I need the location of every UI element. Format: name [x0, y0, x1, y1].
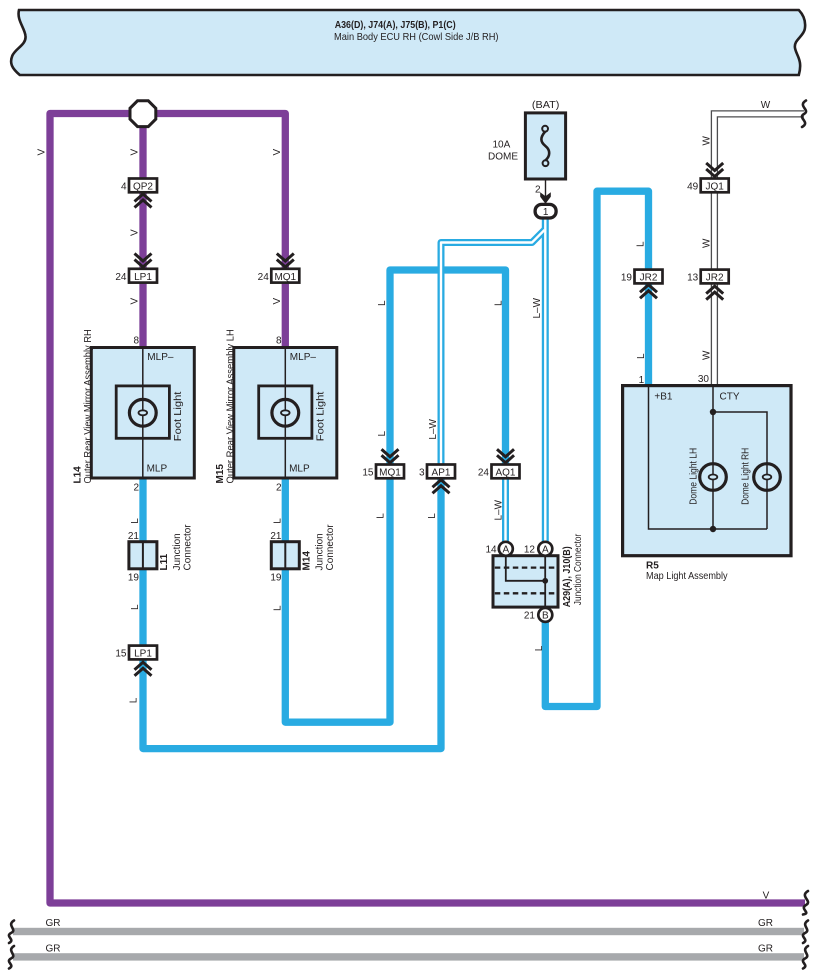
pin A (14) — [499, 542, 513, 556]
connector AQ1 pin 24 — [492, 465, 520, 479]
component L14 Outer Rear View Mirror Assembly RH — [91, 348, 194, 479]
svg-text:Dome Light LH: Dome Light LH — [689, 448, 700, 505]
svg-text:A29(A), J10(B): A29(A), J10(B) — [562, 546, 573, 607]
bulb dome light LH — [700, 464, 727, 491]
svg-text:49: 49 — [687, 182, 699, 193]
tear mark at W wire right end — [802, 101, 806, 128]
connector JR2 pin 13 — [701, 270, 729, 284]
svg-text:Outer Rear View Mirror Assembl: Outer Rear View Mirror Assembly RH — [83, 329, 94, 483]
svg-text:24: 24 — [258, 272, 270, 283]
svg-text:V: V — [272, 298, 283, 305]
svg-text:14: 14 — [485, 545, 497, 556]
svg-text:M14: M14 — [302, 551, 313, 571]
svg-text:V: V — [130, 298, 141, 305]
svg-text:L: L — [130, 518, 141, 524]
R5 junction dots — [710, 409, 716, 415]
svg-text:MQ1: MQ1 — [274, 272, 296, 283]
tear mark at purple bottom right end — [803, 891, 808, 915]
svg-text:LP1: LP1 — [134, 272, 152, 283]
svg-text:L: L — [636, 353, 647, 359]
svg-text:L: L — [377, 300, 388, 306]
svg-text:Main Body ECU RH (Cowl Side J/: Main Body ECU RH (Cowl Side J/B RH) — [334, 31, 499, 43]
svg-text:12: 12 — [524, 545, 536, 556]
svg-text:B: B — [542, 611, 549, 622]
svg-text:W: W — [702, 350, 713, 360]
svg-text:L: L — [376, 513, 387, 519]
tear marks GR bar 1 — [9, 921, 14, 944]
bulb foot light M15 — [272, 399, 299, 426]
svg-text:(BAT): (BAT) — [532, 100, 560, 111]
svg-text:3: 3 — [419, 468, 425, 479]
svg-text:21: 21 — [270, 531, 282, 542]
svg-text:L: L — [493, 300, 504, 306]
svg-text:+B1: +B1 — [654, 392, 673, 403]
svg-text:JR2: JR2 — [706, 273, 724, 284]
svg-text:A: A — [502, 544, 509, 555]
junction connector L11 — [129, 542, 157, 569]
connector MQ1 pin 24 — [271, 269, 299, 283]
svg-text:2: 2 — [276, 483, 282, 494]
svg-text:MQ1: MQ1 — [379, 468, 401, 479]
svg-text:GR: GR — [758, 944, 773, 955]
svg-text:MLP–: MLP– — [147, 352, 174, 363]
arrowhead into node 1 — [540, 192, 551, 204]
svg-text:AQ1: AQ1 — [495, 468, 515, 479]
bulb dome light RH — [754, 464, 781, 491]
svg-text:L–W: L–W — [428, 418, 439, 439]
wire L from L14 pin2 through L11, LP1(15) to AP1 — [143, 477, 441, 749]
R5 internal CTY line — [713, 386, 767, 529]
svg-text:24: 24 — [478, 468, 490, 479]
svg-text:13: 13 — [687, 273, 699, 284]
svg-text:GR: GR — [46, 944, 61, 955]
svg-text:V: V — [130, 149, 141, 156]
svg-text:A: A — [542, 544, 549, 555]
svg-text:W: W — [761, 100, 771, 111]
svg-text:AP1: AP1 — [432, 468, 451, 479]
svg-text:R5: R5 — [646, 561, 659, 572]
svg-text:CTY: CTY — [720, 392, 740, 403]
svg-text:Outer Rear View Mirror Assembl: Outer Rear View Mirror Assembly LH — [225, 329, 236, 483]
wire L-W node1 down to pin A(12) : cyan base — [542, 216, 549, 543]
pin A (12) — [538, 542, 552, 556]
svg-text:24: 24 — [115, 272, 127, 283]
svg-text:Foot Light: Foot Light — [316, 391, 327, 441]
wire V main purple run: top rail, left drop, bottom rail — [50, 114, 805, 904]
component R5 Map Light Assembly — [623, 386, 791, 556]
svg-text:Junction Connector: Junction Connector — [573, 533, 584, 605]
svg-text:L: L — [273, 518, 284, 524]
connector LP1 pin 15 — [129, 646, 157, 660]
svg-text:L: L — [636, 241, 647, 247]
connector AP1 pin 3 — [427, 465, 455, 479]
svg-text:V: V — [130, 229, 141, 236]
svg-text:8: 8 — [133, 336, 139, 347]
svg-text:1: 1 — [639, 375, 645, 386]
svg-text:Dome Light RH: Dome Light RH — [741, 448, 752, 505]
A29 internal wiring — [506, 556, 545, 608]
svg-text:DOME: DOME — [488, 152, 518, 163]
svg-text:Junction: Junction — [315, 533, 326, 570]
wire L-W white stripes — [544, 216, 546, 543]
svg-text:V: V — [763, 891, 770, 902]
svg-text:30: 30 — [698, 374, 710, 385]
svg-text:GR: GR — [758, 918, 773, 929]
wire L-W AQ1 to pin A(14) : cyan base — [502, 472, 509, 543]
svg-text:L: L — [128, 697, 139, 703]
svg-text:MLP: MLP — [289, 464, 310, 475]
connector QP2 pin 4 — [129, 179, 157, 193]
svg-text:Foot Light: Foot Light — [173, 391, 184, 441]
svg-text:MLP–: MLP– — [290, 352, 317, 363]
svg-text:21: 21 — [524, 611, 536, 622]
svg-text:W: W — [702, 136, 713, 146]
svg-text:LP1: LP1 — [134, 649, 152, 660]
wire L-W branch to AP1 : cyan base — [441, 230, 545, 472]
bulb foot light L14 — [129, 399, 156, 426]
svg-text:8: 8 — [276, 336, 282, 347]
wire V center branch to L14 — [139, 114, 146, 348]
svg-text:A36(D), J74(A), J75(B), P1(C): A36(D), J74(A), J75(B), P1(C) — [335, 19, 456, 31]
svg-text:JR2: JR2 — [640, 273, 658, 284]
node octagon junction on V rail — [130, 101, 156, 127]
connector JQ1 pin 49 — [701, 179, 729, 193]
junction connector M14 — [271, 542, 299, 569]
wire L from M15 pin2 through M14 up to MQ1(15), over to AQ1 — [285, 270, 505, 722]
svg-text:19: 19 — [270, 573, 282, 584]
pin B (21) — [538, 608, 552, 622]
svg-text:1: 1 — [543, 207, 549, 218]
gray bar GR 2 — [13, 953, 804, 960]
svg-text:QP2: QP2 — [133, 182, 153, 193]
svg-text:4: 4 — [121, 182, 127, 193]
svg-text:MLP: MLP — [147, 464, 168, 475]
svg-text:L–W: L–W — [532, 297, 543, 318]
connector JR2 pin 19 — [635, 270, 663, 284]
svg-text:2: 2 — [133, 483, 139, 494]
svg-text:L: L — [427, 513, 438, 519]
svg-text:Connector: Connector — [183, 524, 194, 571]
svg-text:JQ1: JQ1 — [706, 182, 725, 193]
svg-text:10A: 10A — [493, 140, 511, 151]
svg-text:L–W: L–W — [494, 499, 505, 520]
svg-text:21: 21 — [128, 531, 140, 542]
fuse element symbol — [541, 132, 549, 161]
svg-text:L11: L11 — [159, 553, 170, 570]
svg-text:L: L — [534, 645, 545, 651]
svg-text:W: W — [702, 238, 713, 248]
svg-text:Connector: Connector — [325, 524, 336, 571]
svg-text:Map Light Assembly: Map Light Assembly — [646, 571, 728, 582]
tear marks GR bar 2 — [9, 946, 14, 969]
svg-text:19: 19 — [128, 573, 140, 584]
node 1 oval — [535, 204, 556, 218]
svg-text:GR: GR — [46, 918, 61, 929]
svg-text:V: V — [37, 149, 48, 156]
svg-text:Junction: Junction — [172, 533, 183, 570]
svg-text:2: 2 — [535, 185, 541, 196]
fuse 10A DOME box — [525, 113, 565, 179]
svg-text:19: 19 — [621, 273, 633, 284]
gray bar GR 1 — [13, 928, 804, 935]
J/B banner: Main Body ECU RH — [11, 10, 805, 75]
svg-text:15: 15 — [115, 649, 127, 660]
R5 internal +B1 line — [649, 386, 768, 529]
svg-text:L: L — [377, 431, 388, 437]
component M15 Outer Rear View Mirror Assembly LH — [234, 348, 337, 479]
fuse output lead — [545, 179, 547, 205]
wire W double line from top right to R5 CTY — [711, 111, 804, 386]
junction connector A29(A), J10(B) box — [493, 556, 558, 607]
wire L from junction connector pin B to JR2(19) and R5 +B1 — [545, 191, 648, 706]
svg-text:V: V — [272, 149, 283, 156]
svg-text:15: 15 — [362, 468, 374, 479]
svg-text:L: L — [130, 604, 141, 610]
connector MQ1 pin 15 — [376, 465, 404, 479]
connector LP1 pin 24 — [129, 269, 157, 283]
svg-text:L: L — [273, 605, 284, 611]
